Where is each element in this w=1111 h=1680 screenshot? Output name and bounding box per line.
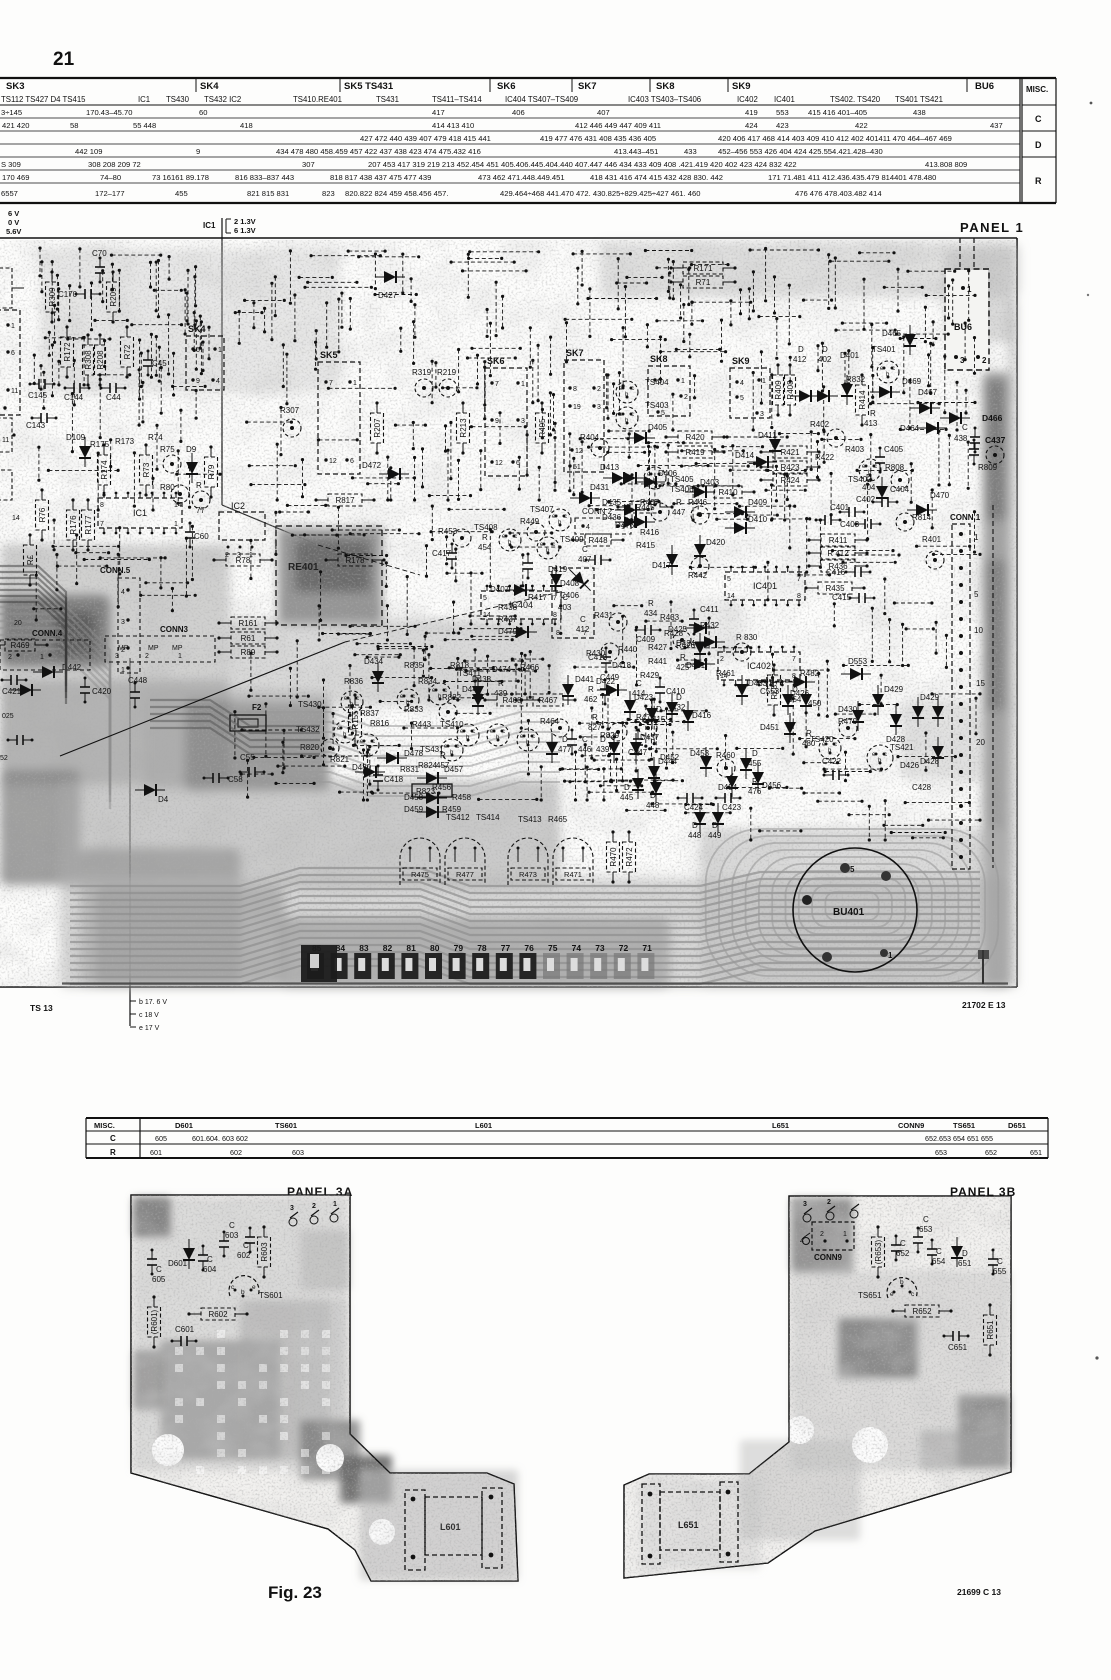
wire	[185, 292, 188, 323]
diode D554	[782, 685, 802, 715]
svg-text:447: 447	[672, 508, 686, 517]
wire	[676, 659, 707, 662]
svg-text:025: 025	[2, 713, 14, 720]
wire	[153, 289, 183, 292]
svg-text:SK5: SK5	[320, 350, 338, 360]
wire	[263, 307, 266, 334]
svg-text:D420: D420	[706, 538, 726, 547]
wire	[901, 623, 904, 667]
wire	[758, 829, 802, 832]
svg-text:R438: R438	[498, 603, 518, 612]
wire	[349, 297, 352, 331]
wire	[445, 535, 448, 565]
diode D417	[666, 545, 678, 575]
resistor R601	[148, 1295, 161, 1348]
svg-text:3: 3	[760, 411, 764, 418]
svg-text:8: 8	[100, 502, 104, 509]
diode D401	[841, 375, 853, 405]
wire	[444, 638, 514, 641]
capacitor C58	[203, 773, 244, 784]
wire	[193, 275, 196, 327]
wire	[474, 680, 520, 683]
wire	[896, 755, 957, 758]
svg-text:R414: R414	[858, 390, 867, 410]
svg-text:417: 417	[432, 108, 445, 117]
svg-text:419: 419	[745, 108, 758, 117]
wire	[425, 544, 428, 578]
wire	[618, 371, 621, 416]
resistor R72	[121, 325, 134, 378]
svg-text:c: c	[874, 464, 877, 470]
svg-text:D453: D453	[690, 749, 710, 758]
potentiometer R401	[926, 551, 944, 569]
svg-text:MP: MP	[148, 645, 159, 652]
svg-text:420 406 417 468 414 403 409 41: 420 406 417 468 414 403 409 410 412 402 …	[718, 134, 952, 143]
wire	[620, 482, 678, 485]
wire	[624, 285, 627, 338]
wire	[655, 266, 691, 269]
wire	[843, 352, 846, 386]
svg-text:c: c	[502, 729, 505, 735]
diode D469	[870, 386, 900, 398]
svg-text:D411: D411	[758, 431, 777, 440]
diode D426	[785, 676, 815, 688]
label D445	[620, 783, 634, 802]
wire	[760, 680, 800, 683]
svg-text:3: 3	[597, 404, 601, 411]
wire	[306, 281, 358, 284]
wire	[830, 472, 833, 516]
wire	[449, 421, 452, 480]
wire	[452, 696, 483, 699]
capacitor C420	[80, 677, 112, 704]
svg-text:605: 605	[155, 1134, 167, 1143]
svg-text:R: R	[592, 713, 598, 722]
wire	[431, 360, 434, 405]
svg-text:D421: D421	[686, 661, 706, 670]
wire	[647, 445, 650, 470]
svg-text:R401: R401	[922, 535, 942, 544]
middle table frame	[86, 1118, 1048, 1158]
top table header separators	[196, 78, 967, 92]
wire	[340, 292, 343, 329]
svg-text:1: 1	[353, 380, 357, 387]
wire	[844, 751, 847, 783]
wire	[599, 784, 643, 787]
wire	[425, 632, 461, 635]
svg-text:58: 58	[70, 121, 78, 130]
svg-text:D458: D458	[404, 793, 424, 802]
connector SK5	[318, 350, 360, 474]
svg-text:c 18 V: c 18 V	[139, 1012, 159, 1019]
wire	[927, 819, 982, 822]
diode D411	[769, 430, 781, 460]
panel 3A hole 1	[152, 1434, 184, 1466]
wire	[155, 335, 158, 377]
wire	[463, 659, 524, 662]
svg-text:R402: R402	[810, 420, 830, 429]
wire	[748, 287, 751, 320]
wire	[486, 655, 489, 696]
capacitor C603	[219, 1221, 239, 1258]
wire	[964, 389, 967, 415]
wire	[322, 706, 325, 766]
wire	[691, 301, 753, 304]
wire	[457, 459, 460, 501]
diode D553	[841, 668, 871, 680]
svg-text:R76: R76	[38, 507, 47, 522]
svg-text:MP: MP	[172, 645, 183, 652]
resistor R468	[483, 694, 540, 706]
label R447	[672, 498, 686, 517]
wire	[78, 247, 81, 288]
svg-text:IC2: IC2	[231, 501, 245, 511]
wire	[565, 321, 568, 363]
wire	[829, 260, 891, 263]
panel 3B pin 3	[803, 1201, 812, 1222]
wire	[141, 381, 144, 424]
svg-text:TS401 TS421: TS401 TS421	[895, 95, 943, 104]
svg-text:F2: F2	[252, 703, 262, 712]
wire	[905, 627, 935, 630]
svg-text:2: 2	[827, 1199, 831, 1206]
svg-text:S 309: S 309	[1, 160, 21, 169]
panel 3A pad grid	[175, 1330, 330, 1474]
wire	[68, 284, 71, 322]
svg-text:6: 6	[11, 350, 15, 357]
wire	[370, 676, 433, 679]
svg-text:C: C	[580, 615, 586, 624]
wire	[770, 483, 773, 521]
diode D454	[726, 767, 738, 797]
svg-text:R72: R72	[123, 344, 132, 359]
potentiometer R80	[171, 485, 189, 503]
diode D431	[570, 492, 600, 504]
wire	[883, 577, 886, 615]
svg-text:11: 11	[11, 388, 18, 395]
diode D601	[183, 1239, 195, 1269]
wire	[441, 386, 479, 389]
wire	[207, 326, 210, 361]
diode D428	[890, 705, 902, 735]
diode D433b	[694, 633, 706, 663]
svg-text:603: 603	[225, 1231, 239, 1240]
svg-text:R472: R472	[625, 847, 634, 867]
svg-text:D: D	[712, 821, 718, 830]
connector SK4	[186, 324, 224, 390]
svg-text:450: 450	[808, 699, 822, 708]
svg-text:R479: R479	[838, 717, 858, 726]
svg-text:TS408: TS408	[474, 523, 498, 532]
wire	[786, 474, 789, 501]
wire	[247, 695, 310, 698]
wire	[155, 424, 158, 471]
svg-text:b: b	[900, 1279, 904, 1286]
wire	[401, 253, 404, 295]
wire	[140, 352, 143, 389]
wire	[385, 561, 388, 588]
wire	[824, 770, 872, 773]
svg-text:R175: R175	[90, 440, 110, 449]
wire	[659, 335, 662, 380]
wire	[325, 301, 328, 349]
svg-text:R420: R420	[685, 433, 705, 442]
svg-text:TS601: TS601	[275, 1121, 297, 1130]
resistor R409	[773, 363, 784, 416]
wire	[871, 346, 874, 399]
svg-text:C428: C428	[912, 783, 932, 792]
svg-text:R411: R411	[829, 536, 848, 545]
label R439	[494, 679, 508, 698]
svg-text:R71: R71	[696, 278, 711, 287]
wire	[890, 831, 947, 834]
capacitor C424	[677, 793, 704, 812]
svg-text:434 478 480 458.459 457 422 43: 434 478 480 458.459 457 422 437 438 423 …	[276, 147, 481, 156]
panel 1 bottom border	[0, 986, 1017, 988]
wire	[834, 713, 877, 716]
svg-text:77: 77	[501, 943, 511, 953]
svg-text:D422: D422	[596, 677, 616, 686]
svg-text:20: 20	[14, 620, 22, 627]
svg-text:BU6: BU6	[954, 322, 972, 332]
potentiometer R219	[439, 379, 457, 397]
potentiometer R446	[691, 506, 709, 524]
svg-text:437: 437	[990, 121, 1003, 130]
svg-text:476: 476	[748, 787, 762, 796]
wire	[581, 440, 584, 494]
wire	[655, 720, 658, 753]
wire	[286, 504, 328, 507]
diode pair D430 D429	[912, 697, 944, 727]
wire	[338, 791, 373, 794]
svg-text:C145: C145	[28, 391, 48, 400]
capacitor C601	[171, 1325, 198, 1346]
wire	[910, 462, 913, 504]
wire	[447, 508, 505, 511]
wire	[35, 574, 38, 622]
diode D421	[685, 658, 715, 670]
diode D477	[546, 733, 558, 763]
svg-text:604: 604	[203, 1265, 217, 1274]
diode D472	[379, 468, 409, 480]
wire	[693, 374, 696, 399]
diode D436	[615, 516, 645, 528]
wire	[668, 271, 671, 299]
resistor R448	[571, 534, 624, 546]
wire	[184, 288, 187, 335]
capacitor C423	[715, 793, 742, 812]
wire	[563, 780, 632, 783]
diode D406	[635, 476, 665, 488]
wire	[602, 767, 605, 801]
svg-text:R: R	[110, 1148, 116, 1157]
IC U2 (IC2)	[219, 501, 265, 559]
svg-text:R651: R651	[986, 1320, 995, 1340]
wire	[101, 269, 104, 303]
svg-text:438: 438	[913, 108, 926, 117]
svg-text:R89: R89	[241, 648, 256, 657]
resistor R823	[412, 784, 452, 797]
diode D409	[725, 506, 755, 518]
svg-text:D: D	[600, 735, 606, 744]
diode D425	[685, 622, 715, 634]
wire	[967, 441, 970, 490]
wire	[456, 657, 459, 702]
wire	[424, 635, 427, 661]
wire	[443, 680, 504, 683]
wire	[788, 504, 791, 549]
relay RE401	[276, 526, 382, 625]
wire	[466, 356, 517, 359]
svg-text:R477: R477	[456, 870, 474, 879]
resistor R74	[140, 433, 164, 497]
wire	[819, 518, 822, 569]
svg-text:R471: R471	[564, 870, 582, 879]
svg-text:D: D	[676, 693, 682, 702]
svg-text:R816: R816	[370, 719, 390, 728]
wire	[817, 672, 820, 717]
resistor R79	[205, 445, 218, 498]
svg-text:C411: C411	[700, 605, 719, 614]
svg-text:75: 75	[548, 943, 558, 953]
svg-text:SK8: SK8	[650, 354, 668, 364]
svg-text:R409: R409	[774, 380, 783, 400]
wire	[486, 308, 489, 338]
wire	[39, 364, 42, 391]
svg-text:C: C	[962, 423, 968, 432]
svg-text:(R601): (R601)	[150, 1309, 159, 1334]
wire	[281, 741, 284, 775]
panel 3A pin 3	[289, 1205, 298, 1226]
svg-text:R415: R415	[636, 541, 656, 550]
wire	[421, 447, 424, 488]
svg-text:477: 477	[558, 745, 572, 754]
wire	[586, 297, 658, 300]
svg-text:C: C	[229, 1221, 235, 1230]
wire	[252, 756, 316, 759]
svg-text:R442: R442	[688, 571, 708, 580]
cut cap left	[7, 735, 34, 745]
wire	[648, 747, 719, 750]
diode D442	[33, 666, 63, 678]
svg-text:C44: C44	[106, 393, 121, 402]
wire	[234, 311, 264, 314]
top table R row 2	[2, 173, 936, 182]
svg-text:b: b	[241, 1289, 245, 1296]
svg-text:D407: D407	[490, 585, 510, 594]
svg-text:D: D	[1035, 140, 1042, 150]
svg-text:R469: R469	[10, 641, 30, 650]
wire	[188, 466, 191, 509]
wire	[578, 722, 628, 725]
wire	[445, 572, 483, 575]
wire	[739, 288, 742, 315]
wire	[572, 252, 632, 255]
svg-text:653: 653	[919, 1225, 933, 1234]
resistor R481	[768, 663, 781, 716]
wire	[660, 709, 708, 712]
svg-text:TS 13: TS 13	[30, 1003, 53, 1013]
svg-text:1: 1	[888, 951, 893, 960]
wire	[298, 276, 334, 279]
svg-text:c: c	[456, 744, 459, 750]
diode D467	[910, 402, 940, 414]
svg-text:TS432 IC2: TS432 IC2	[204, 95, 241, 104]
svg-text:MISC.: MISC.	[1026, 85, 1048, 94]
svg-text:C143: C143	[26, 421, 46, 430]
middle table header row	[94, 1121, 1026, 1130]
wire	[461, 269, 528, 272]
svg-text:D429: D429	[884, 685, 904, 694]
wire	[564, 318, 634, 321]
IC U1 (IC1)	[98, 492, 182, 535]
svg-text:14: 14	[727, 593, 735, 600]
capacitor C651	[943, 1331, 970, 1352]
resistor R208	[95, 333, 106, 386]
wire	[967, 269, 970, 322]
wire	[816, 800, 863, 803]
transistor TS431	[441, 739, 463, 761]
svg-text:C: C	[110, 1134, 116, 1143]
diode D651	[951, 1237, 972, 1268]
svg-text:D553: D553	[848, 657, 868, 666]
svg-text:1: 1	[843, 1231, 847, 1238]
svg-text:R: R	[676, 498, 682, 507]
svg-text:823: 823	[322, 189, 335, 198]
wire	[869, 402, 941, 405]
panel 3A hole 3	[369, 1519, 395, 1545]
wire	[798, 737, 856, 740]
wire	[884, 799, 887, 842]
svg-text:TS112 TS427 D4 TS415: TS112 TS427 D4 TS415	[1, 95, 86, 104]
svg-text:C: C	[997, 1257, 1003, 1266]
wire	[99, 556, 167, 559]
panel 3A hole 2	[316, 1444, 344, 1472]
svg-text:78: 78	[477, 943, 487, 953]
svg-text:76: 76	[524, 943, 534, 953]
wire	[770, 373, 773, 429]
wire	[802, 791, 841, 794]
cut component fragment 2	[0, 418, 16, 452]
wire	[386, 456, 389, 502]
wire	[149, 261, 152, 289]
svg-text:77: 77	[196, 506, 205, 515]
diode D457	[417, 772, 447, 784]
connector CONN.4	[0, 629, 90, 670]
svg-text:3: 3	[521, 418, 525, 425]
resistor R175	[90, 440, 111, 497]
wire	[38, 247, 41, 278]
diode D429	[872, 685, 884, 715]
wire	[778, 432, 820, 435]
wire	[171, 385, 207, 388]
wire	[97, 452, 100, 512]
svg-text:R403: R403	[845, 445, 865, 454]
diode D465	[904, 325, 916, 355]
wire	[282, 343, 285, 388]
svg-text:TS651: TS651	[953, 1121, 975, 1130]
svg-text:TS414: TS414	[476, 813, 500, 822]
diode D455	[740, 749, 762, 779]
wire	[683, 646, 752, 649]
wire	[931, 488, 934, 529]
svg-text:C448: C448	[128, 676, 148, 685]
wire	[347, 250, 387, 253]
wire	[495, 281, 498, 338]
wire	[44, 336, 85, 339]
capacitor C143	[26, 413, 58, 430]
wire	[973, 510, 976, 554]
